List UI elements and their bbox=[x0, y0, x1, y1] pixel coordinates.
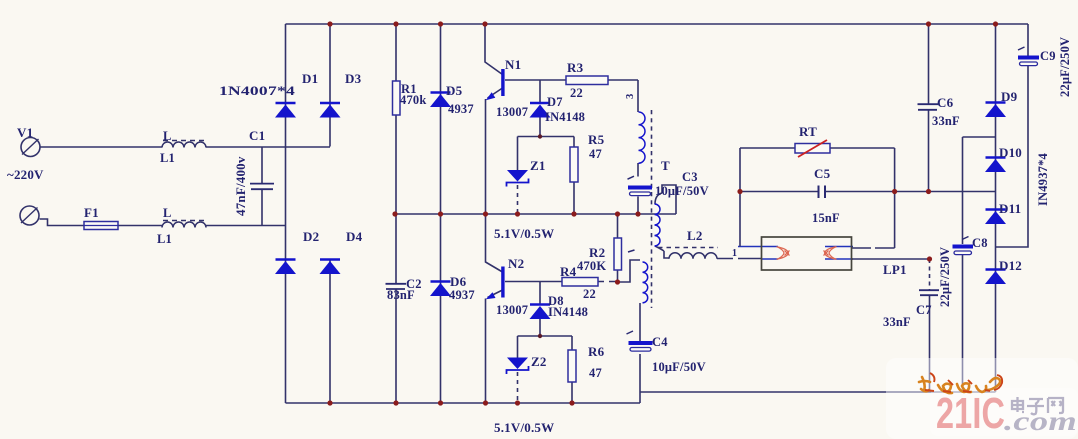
svg-text:RT: RT bbox=[799, 124, 817, 139]
svg-text:D6: D6 bbox=[450, 274, 467, 289]
svg-text:33nF: 33nF bbox=[932, 114, 960, 128]
svg-text:D1: D1 bbox=[302, 71, 318, 86]
svg-text:13007: 13007 bbox=[496, 303, 528, 317]
svg-text:13007: 13007 bbox=[496, 105, 528, 119]
svg-text:D9: D9 bbox=[1001, 89, 1018, 104]
svg-text:10μF/50V: 10μF/50V bbox=[655, 184, 709, 198]
svg-text:R2: R2 bbox=[589, 245, 605, 260]
svg-text:47nF/400v: 47nF/400v bbox=[233, 156, 248, 216]
svg-text:D7: D7 bbox=[547, 95, 563, 109]
svg-text:1: 1 bbox=[732, 248, 737, 259]
svg-text:D11: D11 bbox=[999, 201, 1021, 216]
svg-text:N2: N2 bbox=[508, 256, 524, 271]
svg-text:V1: V1 bbox=[17, 125, 33, 140]
svg-text:C6: C6 bbox=[937, 95, 954, 110]
svg-text:R3: R3 bbox=[567, 60, 584, 75]
svg-text:IN4148: IN4148 bbox=[545, 110, 585, 124]
svg-text:Z1: Z1 bbox=[530, 158, 546, 173]
svg-text:D2: D2 bbox=[303, 229, 319, 244]
svg-text:C4: C4 bbox=[652, 335, 668, 349]
svg-text:LP1: LP1 bbox=[883, 262, 907, 277]
svg-text:15nF: 15nF bbox=[812, 211, 840, 225]
svg-text:47: 47 bbox=[589, 366, 602, 380]
svg-text:21IC: 21IC bbox=[936, 389, 1005, 438]
svg-text:10μF/50V: 10μF/50V bbox=[652, 360, 706, 374]
svg-text:D12: D12 bbox=[999, 258, 1022, 273]
svg-text:L1: L1 bbox=[157, 232, 172, 246]
svg-text:22: 22 bbox=[570, 86, 583, 100]
svg-text:4937: 4937 bbox=[448, 102, 474, 116]
svg-text:L1: L1 bbox=[160, 151, 175, 165]
svg-text:5.1V/0.5W: 5.1V/0.5W bbox=[494, 226, 554, 241]
svg-text:C1: C1 bbox=[249, 128, 265, 143]
svg-text:IN4937*4: IN4937*4 bbox=[1036, 152, 1050, 206]
svg-text:Z2: Z2 bbox=[531, 354, 547, 369]
svg-text:~220V: ~220V bbox=[7, 167, 44, 182]
svg-text:C5: C5 bbox=[814, 166, 831, 181]
svg-text:C8: C8 bbox=[972, 236, 988, 250]
svg-text:C7: C7 bbox=[916, 303, 932, 317]
svg-text:3: 3 bbox=[625, 94, 636, 99]
svg-text:D10: D10 bbox=[999, 145, 1022, 160]
svg-text:D4: D4 bbox=[346, 229, 363, 244]
svg-text:.com: .com bbox=[1004, 406, 1077, 436]
svg-text:R6: R6 bbox=[588, 344, 605, 359]
svg-text:R5: R5 bbox=[588, 132, 605, 147]
svg-text:4937: 4937 bbox=[449, 288, 475, 302]
svg-text:D5: D5 bbox=[446, 83, 463, 98]
svg-text:22μF/250V: 22μF/250V bbox=[938, 247, 952, 307]
svg-text:470K: 470K bbox=[577, 259, 606, 273]
svg-text:IN4148: IN4148 bbox=[548, 305, 588, 319]
svg-text:22μF/250V: 22μF/250V bbox=[1058, 37, 1072, 97]
svg-text:22: 22 bbox=[583, 287, 596, 301]
svg-text:N1: N1 bbox=[505, 57, 521, 72]
svg-text:C9: C9 bbox=[1040, 49, 1056, 63]
svg-text:L: L bbox=[163, 129, 172, 143]
svg-text:33nF: 33nF bbox=[883, 315, 911, 329]
svg-text:47: 47 bbox=[589, 147, 602, 161]
svg-text:F1: F1 bbox=[84, 205, 99, 220]
svg-text:5.1V/0.5W: 5.1V/0.5W bbox=[494, 420, 554, 435]
svg-text:L2: L2 bbox=[687, 228, 703, 243]
svg-text:470k: 470k bbox=[400, 93, 427, 107]
svg-text:83nF: 83nF bbox=[387, 288, 415, 302]
svg-text:C3: C3 bbox=[682, 170, 698, 184]
svg-text:D3: D3 bbox=[345, 71, 362, 86]
svg-text:T: T bbox=[661, 158, 670, 173]
svg-text:1N4007*4: 1N4007*4 bbox=[219, 83, 295, 98]
svg-text:R4: R4 bbox=[560, 264, 577, 279]
svg-text:L: L bbox=[163, 206, 172, 220]
